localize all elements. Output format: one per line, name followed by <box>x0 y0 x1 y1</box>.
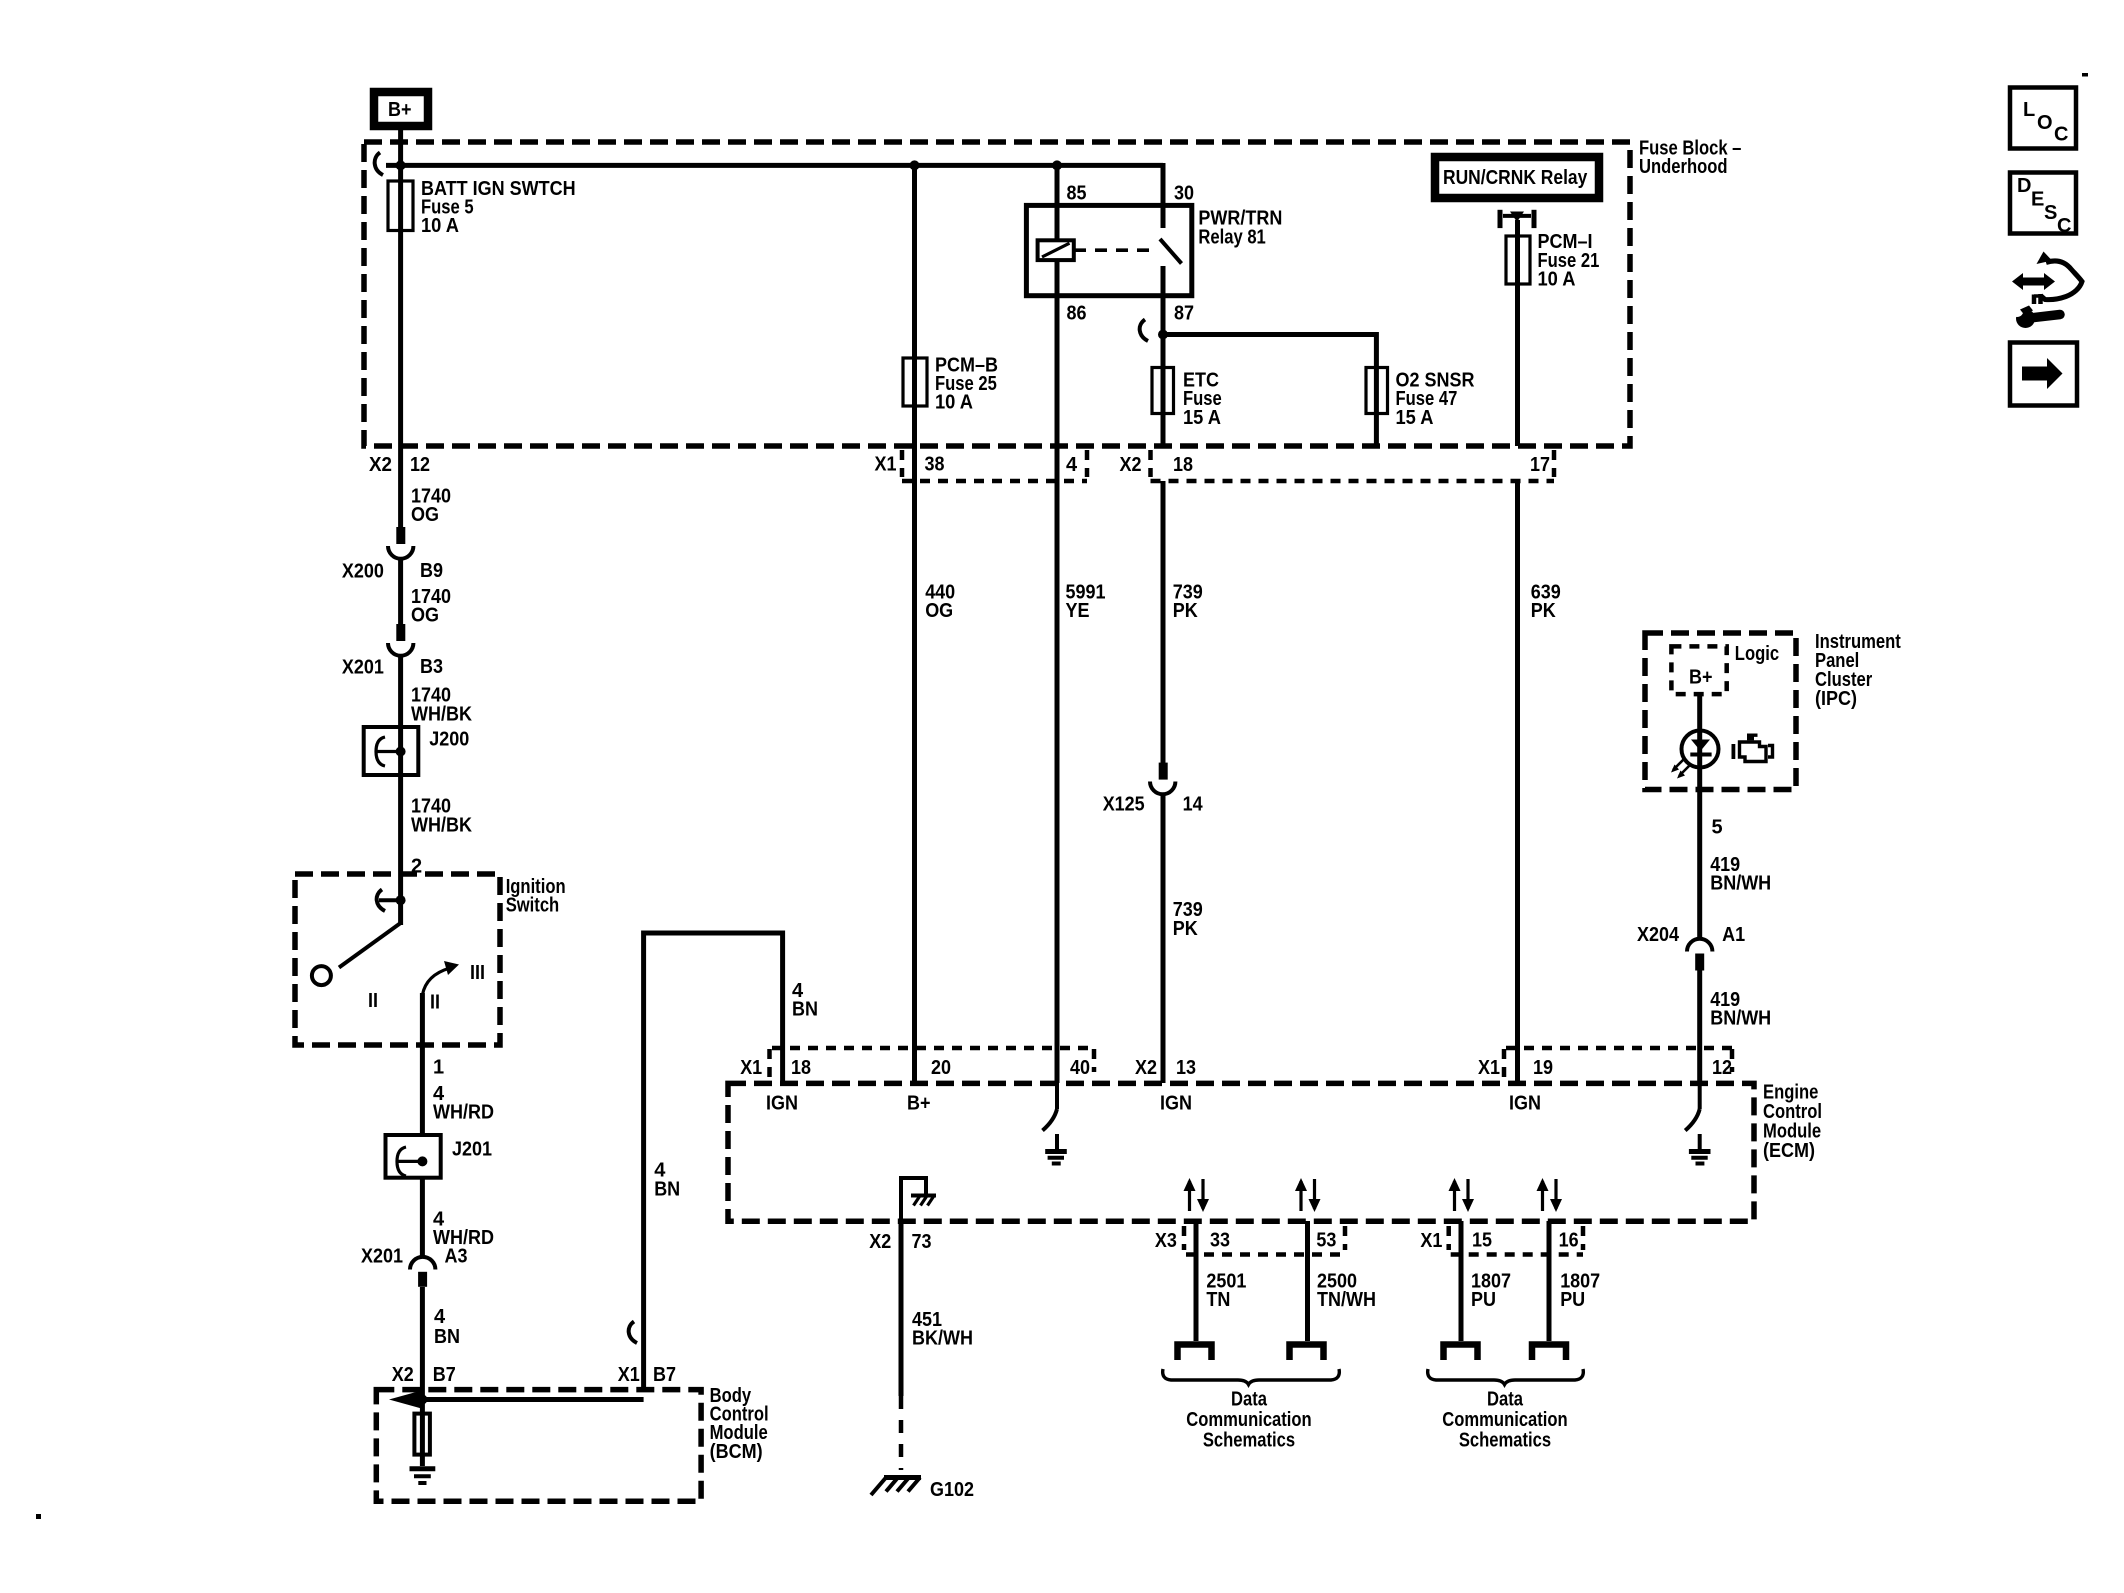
wire J201 to X201-A3 <box>420 1178 425 1257</box>
svg-text:18: 18 <box>1173 454 1193 476</box>
feed hook inside ignition switch <box>377 890 385 912</box>
bus wire (B+ feed) across fuse block <box>386 163 1163 168</box>
ECM internal ground (pin 40) <box>1045 1152 1067 1164</box>
body control module BCM (dashed outline) <box>376 1385 768 1501</box>
svg-text:OG: OG <box>925 600 953 622</box>
wire label 4 BN (left) <box>434 1306 460 1348</box>
svg-text:B7: B7 <box>433 1364 456 1386</box>
svg-text:PK: PK <box>1173 918 1198 940</box>
svg-text:Communication: Communication <box>1442 1409 1567 1431</box>
in-line connector X204 A1 <box>1637 924 1745 970</box>
svg-text:BN: BN <box>792 999 818 1021</box>
svg-text:Schematics: Schematics <box>1203 1429 1295 1451</box>
svg-text:17: 17 <box>1530 454 1550 476</box>
svg-text:IGN: IGN <box>1509 1093 1541 1115</box>
svg-text:Data: Data <box>1231 1389 1268 1411</box>
node: bus / PCM-B tap <box>910 160 920 170</box>
svg-text:YE: YE <box>1066 600 1090 622</box>
pin label X3 33 53 <box>1155 1229 1337 1252</box>
off-page terminator (pin 33) <box>1178 1345 1212 1361</box>
pin label X2 B7 <box>392 1364 456 1386</box>
svg-text:BK/WH: BK/WH <box>912 1327 973 1349</box>
ignition switch wiper blade <box>339 923 401 968</box>
wire fuse 5 drop (to X2-12) <box>398 165 403 528</box>
pin label X2 18 <box>1120 454 1194 476</box>
wire 639 PK (pin 17 to ECM X1-19) <box>1515 481 1520 1083</box>
svg-text:Data: Data <box>1487 1389 1524 1411</box>
svg-text:40: 40 <box>1070 1057 1090 1079</box>
brace (right data pair) <box>1428 1369 1584 1385</box>
connector strip X1 (pins 15,16) <box>1449 1226 1583 1255</box>
off-page terminator (pin 16) <box>1532 1345 1566 1361</box>
check engine icon <box>1732 734 1773 762</box>
data link arrows (pin 33) <box>1184 1178 1210 1212</box>
svg-text:PU: PU <box>1560 1289 1585 1311</box>
MIL indicator LED <box>1682 731 1719 768</box>
svg-text:(BCM): (BCM) <box>710 1441 763 1463</box>
wire label 1740 OG (upper) <box>411 486 451 527</box>
connector strip tick left of X2 group <box>1148 450 1153 477</box>
svg-text:X2: X2 <box>1120 454 1142 476</box>
wire inside BCM with direction arrow <box>389 1391 644 1409</box>
PWR/TRN relay 81 <box>1026 183 1282 325</box>
svg-text:86: 86 <box>1067 303 1087 325</box>
RUN/CRNK relay label box <box>1435 157 1599 198</box>
wire label 4 WH/RD (upper) <box>433 1083 494 1124</box>
svg-text:X3: X3 <box>1155 1230 1177 1252</box>
label data communication schematics (left) <box>1186 1389 1311 1452</box>
wire label 419 BN/WH (lower) <box>1710 989 1771 1030</box>
label data communication schematics (right) <box>1442 1389 1567 1452</box>
svg-text:WH/BK: WH/BK <box>411 703 472 725</box>
svg-text:Switch: Switch <box>506 895 560 917</box>
svg-text:20: 20 <box>931 1057 951 1079</box>
svg-text:12: 12 <box>410 454 430 476</box>
svg-text:15 A: 15 A <box>1396 407 1434 429</box>
wire dashed continuation to G102 <box>899 1396 904 1470</box>
serial data wire 1807 PU (pin 15) <box>1459 1221 1464 1341</box>
svg-text:O: O <box>2037 112 2053 134</box>
wire label 739 PK (lower) <box>1173 899 1203 940</box>
pin label X2 13 <box>1135 1057 1196 1079</box>
svg-text:PK: PK <box>1173 600 1198 622</box>
svg-text:TN: TN <box>1206 1289 1230 1311</box>
wire label 440 OG <box>925 582 955 623</box>
pin label X1 38 <box>875 454 945 476</box>
fuse block - underhood (dashed outline) <box>364 138 1741 447</box>
wire relay 85 coil feed <box>1055 165 1060 240</box>
in-line connector X125 14 <box>1103 763 1204 816</box>
svg-text:II: II <box>430 991 440 1013</box>
wire pin 30 from bus <box>1161 163 1166 205</box>
ECM connector strip X1 (pins 19,12) <box>1504 1048 1732 1080</box>
off-page terminator (pin 53) <box>1290 1345 1324 1361</box>
IPC internal B+ node (dashed boxlet) <box>1671 646 1726 694</box>
svg-text:X1: X1 <box>618 1364 640 1386</box>
in-line connector X201 A3 <box>361 1245 468 1287</box>
svg-text:WH/RD: WH/RD <box>433 1102 494 1124</box>
svg-text:X1: X1 <box>1478 1057 1500 1079</box>
BCM internal ground <box>410 1469 436 1483</box>
svg-text:S: S <box>2044 202 2057 224</box>
wire label 1807 PU (pin 15) <box>1471 1271 1511 1312</box>
off-page terminator (pin 15) <box>1444 1345 1478 1361</box>
ground G102 <box>871 1478 974 1502</box>
relay pin 30 stub <box>1161 203 1166 228</box>
O2 SNSR fuse 47 15A <box>1366 368 1475 429</box>
wire label 4 WH/RD (lower) <box>433 1209 494 1250</box>
wire B+ terminal down to bus <box>398 130 403 165</box>
svg-text:E: E <box>2031 189 2044 211</box>
serial data wire 1807 PU (pin 16) <box>1547 1221 1552 1341</box>
svg-text:33: 33 <box>1210 1229 1230 1251</box>
wire BCM X1-B7 up and over to ECM X1-18 (4 BN) <box>644 933 783 1390</box>
svg-text:B9: B9 <box>420 560 443 582</box>
svg-text:X1: X1 <box>875 454 897 476</box>
svg-text:B3: B3 <box>420 656 443 678</box>
svg-text:D: D <box>2017 175 2031 197</box>
svg-text:14: 14 <box>1183 794 1204 816</box>
wire 451 BK/WH (X2-73 to G102) <box>899 1221 904 1396</box>
wire X204 to ECM pin 12 (419 BN/WH) <box>1697 971 1702 1084</box>
connector strip below fuse block: tick X1 <box>900 450 905 477</box>
wire label 739 PK (upper) <box>1173 582 1203 623</box>
B+ power terminal <box>374 92 428 126</box>
wire 5991 YE (pin 4 to ECM pin 40) <box>1055 481 1060 1083</box>
svg-text:L: L <box>2023 99 2035 121</box>
svg-text:X125: X125 <box>1103 794 1145 816</box>
feed hook at 87 branch <box>1140 320 1148 342</box>
svg-text:J200: J200 <box>429 728 469 750</box>
svg-text:TN/WH: TN/WH <box>1317 1289 1376 1311</box>
wire X201 to J200 <box>398 655 403 874</box>
ignition switch (dashed outline) <box>295 874 566 1045</box>
svg-text:10 A: 10 A <box>421 215 459 237</box>
diagnostic arrows-wrench icon <box>2011 252 2083 329</box>
DESC legend box <box>2010 173 2076 238</box>
node: BCM internal junction <box>417 1395 427 1405</box>
svg-text:(IPC): (IPC) <box>1815 688 1857 710</box>
svg-text:C: C <box>2054 124 2068 146</box>
svg-text:X1: X1 <box>1420 1230 1442 1252</box>
pin label X1 19 <box>1478 1057 1553 1079</box>
wire ignition input to wiper pivot <box>398 874 403 925</box>
svg-text:IGN: IGN <box>1160 1093 1192 1115</box>
instrument panel cluster IPC (dashed outline) <box>1645 631 1901 790</box>
svg-text:5: 5 <box>1712 817 1723 839</box>
data link arrows (pin 53) <box>1295 1178 1321 1212</box>
wire label 1740 WH/BK (lower) <box>411 796 472 837</box>
LED emission arrows <box>1671 759 1690 779</box>
svg-text:OG: OG <box>411 504 439 526</box>
svg-text:Underhood: Underhood <box>1639 156 1728 178</box>
svg-text:Relay 81: Relay 81 <box>1198 226 1265 248</box>
svg-text:B+: B+ <box>388 99 412 121</box>
svg-text:53: 53 <box>1316 1229 1336 1251</box>
svg-text:13: 13 <box>1176 1057 1196 1079</box>
wire IPC pin 5 to X204 <box>1697 790 1702 939</box>
svg-text:15 A: 15 A <box>1183 407 1221 429</box>
svg-text:19: 19 <box>1533 1057 1553 1079</box>
wire branch to O2 SNSR fuse <box>1163 335 1376 447</box>
ECM connector strip X1 (pins 18,20,40) <box>770 1048 1095 1080</box>
node: ignition switch input <box>396 895 406 905</box>
svg-text:BN/WH: BN/WH <box>1710 873 1771 895</box>
relay pin 87 stub <box>1161 266 1166 298</box>
node: 87 / O2 SNSR branch <box>1158 330 1168 340</box>
svg-text:A3: A3 <box>445 1245 468 1267</box>
ECM internal switch to ground (pin 12) <box>1685 1083 1700 1150</box>
wire label 4 BN (top) <box>792 980 818 1021</box>
rotation arrow II to III <box>422 961 459 995</box>
in-line connector X200 B9 <box>342 527 443 583</box>
svg-text:18: 18 <box>791 1057 811 1079</box>
splice J200 <box>364 727 470 775</box>
wire label 1807 PU (pin 16) <box>1560 1271 1600 1312</box>
svg-text:C: C <box>2057 215 2071 237</box>
wire 739 PK upper (X2-18 to X125) <box>1161 481 1166 763</box>
wire label 4 BN (right) <box>654 1160 680 1201</box>
svg-text:WH/BK: WH/BK <box>411 814 472 836</box>
feed hook at start of bus <box>375 153 383 176</box>
svg-text:87: 87 <box>1174 303 1194 325</box>
wire B+ to indicator <box>1697 694 1702 789</box>
PCM-B fuse 25 10A <box>903 355 998 414</box>
svg-text:BN/WH: BN/WH <box>1710 1008 1771 1030</box>
svg-text:4: 4 <box>434 1306 446 1328</box>
engine control module ECM (dashed outline) <box>728 1082 1822 1222</box>
fuse 5 BATT IGN SWTCH 10A <box>388 178 576 237</box>
ECM internal switch to ground (pin 40) <box>1043 1083 1058 1150</box>
svg-text:85: 85 <box>1067 183 1087 205</box>
wire label 419 BN/WH (upper) <box>1710 854 1771 895</box>
RUN/CRNK relay contact symbol <box>1500 210 1534 228</box>
wire 440 OG (X1-38 to ECM pin 20) <box>912 481 917 1083</box>
connector strip dotted line group X2 <box>1151 479 1555 484</box>
ignition RUN contact wire (pin 1) <box>420 993 425 1135</box>
svg-text:16: 16 <box>1559 1229 1579 1251</box>
svg-text:OG: OG <box>411 605 439 627</box>
svg-text:15: 15 <box>1472 1229 1492 1251</box>
pin label X1 15 16 <box>1420 1229 1578 1252</box>
wire label 639 PK <box>1531 582 1561 623</box>
svg-text:X200: X200 <box>342 561 384 583</box>
svg-text:X204: X204 <box>1637 924 1680 946</box>
wire label 2501 TN <box>1206 1271 1246 1312</box>
svg-text:1: 1 <box>433 1057 444 1079</box>
ECM internal ground lead (pin X2-73) <box>901 1178 936 1221</box>
connector strip tick right of pin 17 <box>1552 450 1557 477</box>
svg-text:II: II <box>368 990 378 1012</box>
data link arrows (pin 16) <box>1537 1178 1563 1212</box>
feed hook on 4 BN wire <box>629 1322 637 1344</box>
svg-text:X1: X1 <box>740 1057 762 1079</box>
forward arrow legend box <box>2010 343 2077 406</box>
relay actuation dashed link <box>1074 248 1158 252</box>
svg-text:30: 30 <box>1174 183 1194 205</box>
connector strip dotted line group X1 <box>902 479 1087 484</box>
svg-text:Logic: Logic <box>1735 643 1779 665</box>
in-line connector X201 B3 <box>342 624 443 679</box>
wire label 2500 TN/WH <box>1317 1271 1376 1312</box>
svg-text:G102: G102 <box>930 1479 974 1501</box>
wire relay 86 down to pin 4 <box>1055 260 1060 481</box>
svg-text:38: 38 <box>925 454 945 476</box>
wire label 1740 OG (lower) <box>411 586 451 627</box>
pin label X2 12 (fuse block bottom) <box>369 454 430 476</box>
ignition switch OFF contact <box>312 966 331 985</box>
svg-text:III: III <box>470 962 485 984</box>
svg-text:Communication: Communication <box>1186 1409 1311 1431</box>
svg-text:J201: J201 <box>452 1138 492 1160</box>
wire X200 to X201 <box>398 558 403 624</box>
node: bus / relay 85 tap <box>1052 160 1062 170</box>
wire X201-A3 to BCM X2-B7 <box>420 1287 425 1400</box>
svg-text:4: 4 <box>1066 454 1078 476</box>
svg-text:10 A: 10 A <box>935 392 973 414</box>
svg-text:X2: X2 <box>869 1231 891 1253</box>
svg-text:BN: BN <box>434 1326 460 1348</box>
ECM internal ground (pin 12) <box>1689 1152 1711 1164</box>
serial data wire 2500 TN/WH (pin 53) <box>1305 1221 1310 1341</box>
wire label 1740 WH/BK (upper) <box>411 685 472 726</box>
brace (left data pair) <box>1163 1369 1340 1385</box>
stray mark bottom left <box>36 1514 41 1519</box>
splice J201 <box>386 1135 493 1178</box>
node: bus / fuse5 tap <box>396 160 406 170</box>
svg-text:BN: BN <box>654 1179 680 1201</box>
wire PCM-I drop to pin 17 <box>1515 220 1520 446</box>
svg-text:12: 12 <box>1712 1057 1732 1079</box>
pin label X2 73 <box>869 1231 931 1253</box>
connector strip tick right of pin 4 <box>1085 450 1090 477</box>
svg-text:X201: X201 <box>342 657 384 679</box>
svg-text:IGN: IGN <box>766 1093 798 1115</box>
svg-text:X201: X201 <box>361 1245 403 1267</box>
LOC legend box <box>2010 88 2076 149</box>
ETC fuse 15A <box>1152 368 1222 429</box>
wire 739 PK lower (X125 to ECM X2-13) <box>1161 794 1166 1084</box>
stray mark top right <box>2082 73 2088 77</box>
relay switch blade <box>1160 239 1182 264</box>
PCM-I fuse 21 10A <box>1506 231 1599 290</box>
svg-text:X2: X2 <box>1135 1057 1157 1079</box>
serial data wire 2501 TN (pin 33) <box>1194 1221 1199 1341</box>
wire label 451 BK/WH <box>912 1309 973 1350</box>
wire relay 87 down to ETC fuse and pin X2-18 <box>1161 296 1166 446</box>
svg-text:B+: B+ <box>1689 666 1713 688</box>
svg-text:73: 73 <box>912 1231 932 1253</box>
svg-text:PU: PU <box>1471 1289 1496 1311</box>
svg-text:10 A: 10 A <box>1538 268 1576 290</box>
pin label X1 B7 <box>618 1364 676 1386</box>
relay coil <box>1038 240 1074 260</box>
wire label 5991 YE <box>1066 582 1106 623</box>
svg-text:Schematics: Schematics <box>1459 1429 1551 1451</box>
svg-text:B+: B+ <box>907 1093 931 1115</box>
svg-text:A1: A1 <box>1722 924 1745 946</box>
svg-text:X2: X2 <box>392 1364 414 1386</box>
connector strip X3 (pins 33,53) <box>1184 1226 1345 1255</box>
data link arrows (pin 15) <box>1449 1178 1475 1212</box>
svg-text:B7: B7 <box>653 1364 676 1386</box>
BCM pull-down resistor <box>414 1400 430 1467</box>
svg-text:X2: X2 <box>369 454 392 476</box>
wire PCM-B drop (bus to X1-38) <box>912 165 917 481</box>
svg-text:RUN/CRNK Relay: RUN/CRNK Relay <box>1443 167 1588 189</box>
svg-text:PK: PK <box>1531 600 1556 622</box>
svg-text:(ECM): (ECM) <box>1763 1140 1815 1162</box>
pin label X1 18 <box>740 1057 811 1079</box>
